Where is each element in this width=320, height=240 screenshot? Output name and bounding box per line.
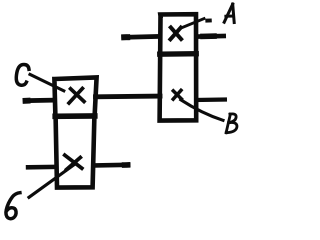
wire thickening middle <box>203 33 214 39</box>
wire: right stub of W2 bottom cell <box>96 163 128 168</box>
wire: right stub of W1 top cell <box>197 34 224 39</box>
leader tick near A <box>207 19 210 23</box>
tap mark X1 (W1 top cell) <box>170 27 181 39</box>
leader line to label C <box>30 74 64 90</box>
wire: left stub of W2 bottom cell (terminal Б side) <box>28 165 54 170</box>
wire: left stub of W1 top cell <box>124 34 158 40</box>
label B <box>226 114 237 133</box>
leader line to label B <box>181 100 223 121</box>
wire blob at left end <box>26 98 28 104</box>
wire: left stub of W2 top cell (terminal C side) <box>25 98 52 103</box>
wire: middle connector W2 top to W1 bottom <box>96 94 161 100</box>
wire blob at right end <box>125 162 128 168</box>
tap mark X4 (W2 bottom cell) <box>65 155 82 169</box>
label Б <box>6 193 20 219</box>
wire blob at left end <box>124 34 127 40</box>
label A <box>224 4 234 22</box>
label C <box>16 65 29 86</box>
winding block W1 (right, two cells) <box>160 14 197 120</box>
winding block W2 (left, two cells) <box>54 77 96 187</box>
leader line to label A <box>181 19 205 29</box>
tap mark X3 (W2 top cell) <box>69 89 84 104</box>
wire: right stub of W1 bottom cell <box>196 97 225 102</box>
tap mark X2 (W1 bottom cell) <box>173 90 181 99</box>
leader line to label Б <box>29 163 76 197</box>
